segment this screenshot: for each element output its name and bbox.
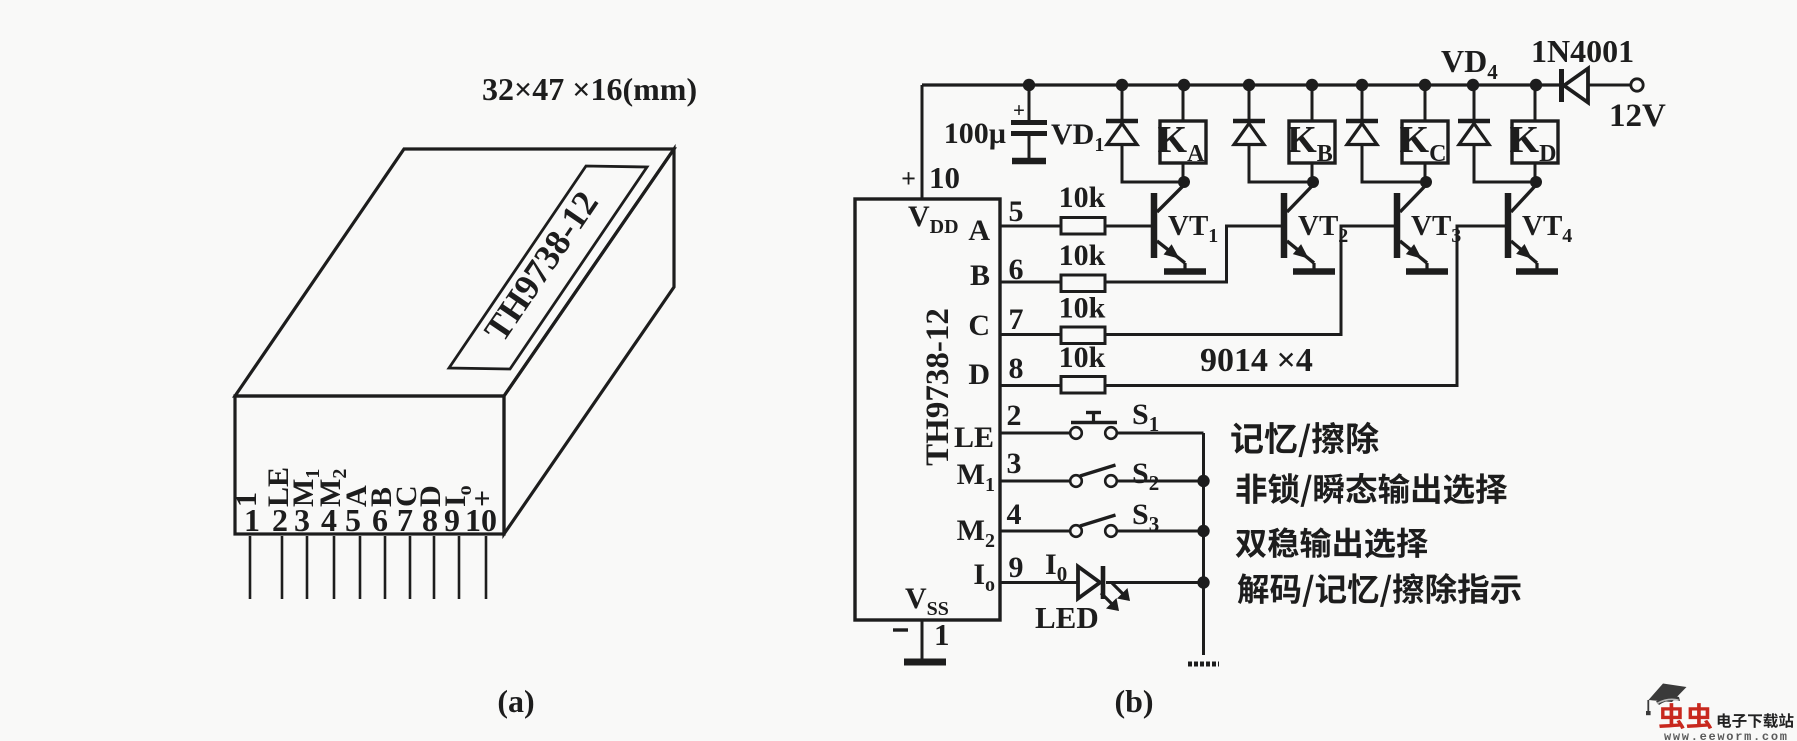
logo chongchong red — [1659, 703, 1712, 729]
supply rail wire — [922, 83, 1559, 86]
svg-text:9: 9 — [1009, 551, 1024, 584]
relay KD — [1534, 85, 1537, 121]
svg-text:1: 1 — [230, 492, 263, 507]
relay KC — [1424, 85, 1427, 121]
collector junction dots — [1178, 176, 1190, 188]
IC U1 TH9738-12 box — [855, 199, 1000, 620]
transistor VT3 — [1394, 193, 1401, 258]
svg-text:D: D — [968, 358, 990, 391]
svg-text:10k: 10k — [1059, 341, 1106, 374]
svg-text:10k: 10k — [1059, 181, 1106, 214]
svg-text:LED: LED — [1035, 600, 1099, 635]
logo graduation cap — [1649, 684, 1687, 703]
LED D1 — [1000, 581, 1078, 584]
svg-text:10k: 10k — [1059, 239, 1106, 272]
label - (pin1) — [893, 628, 908, 631]
label jiema... — [1238, 573, 1521, 607]
svg-text:6: 6 — [1009, 253, 1024, 286]
capacitor ground — [1012, 158, 1046, 165]
svg-text:1: 1 — [934, 617, 950, 652]
svg-text:LE: LE — [954, 421, 994, 454]
svg-text:www.eeworm.com: www.eeworm.com — [1664, 730, 1789, 741]
package top face — [235, 149, 674, 396]
label shuangwen... — [1236, 527, 1428, 558]
svg-text:(a): (a) — [497, 683, 534, 719]
relay KA — [1182, 85, 1185, 121]
package label plate — [449, 166, 647, 369]
relay KB — [1311, 85, 1314, 121]
resistors 10k x4 — [1061, 218, 1105, 235]
diode VD2 — [1248, 85, 1251, 119]
svg-text:10: 10 — [929, 160, 960, 195]
diode VD3 — [1361, 85, 1364, 119]
svg-text:32×47 ×16(mm): 32×47 ×16(mm) — [482, 71, 697, 107]
svg-text:A: A — [968, 214, 990, 247]
svg-text:5: 5 — [1009, 195, 1024, 228]
svg-text:TH9738-12: TH9738-12 — [920, 308, 956, 466]
package right face — [504, 149, 674, 534]
switch S3 — [1000, 530, 1070, 533]
bus ground — [1188, 662, 1219, 667]
logo site name — [1718, 713, 1794, 728]
diode VD1 — [1121, 85, 1124, 119]
IC pin10 wire — [921, 85, 924, 199]
svg-text:C: C — [968, 309, 990, 342]
diode VD4 — [1473, 85, 1476, 119]
rail-to-diode wire — [1587, 84, 1631, 87]
transistor VT4 — [1505, 193, 1512, 258]
svg-text:2: 2 — [1007, 399, 1022, 432]
ground (Vss) — [904, 659, 946, 666]
svg-text:4: 4 — [1007, 498, 1022, 531]
svg-text:+: + — [901, 164, 916, 193]
LED emission arrows — [1101, 593, 1114, 606]
svg-text:+: + — [1013, 98, 1025, 122]
svg-text:B: B — [970, 259, 990, 292]
label feisuo... — [1236, 473, 1507, 507]
package front face — [235, 396, 504, 534]
svg-text:10k: 10k — [1059, 292, 1106, 325]
svg-text:9014 ×4: 9014 ×4 — [1200, 342, 1313, 379]
switch S2 — [1000, 480, 1070, 483]
svg-text:8: 8 — [1009, 352, 1024, 385]
svg-text:3: 3 — [1007, 447, 1022, 480]
transistor VT1 — [1151, 193, 1158, 258]
svg-text:1N4001: 1N4001 — [1531, 33, 1634, 69]
svg-text:12V: 12V — [1609, 98, 1666, 134]
rail junction dots — [1023, 79, 1035, 91]
IC pin1 wire — [921, 620, 924, 661]
bus wire — [1202, 433, 1205, 655]
label jiyi/cachu — [1231, 422, 1378, 457]
switch S1 (pushbutton) — [1000, 432, 1070, 435]
bus junction dots — [1197, 475, 1209, 487]
svg-text:(b): (b) — [1114, 683, 1153, 719]
base drive wires A-D — [1000, 225, 1151, 228]
terminal 12V — [1631, 79, 1643, 91]
svg-text:+: + — [466, 490, 499, 507]
svg-text:100µ: 100µ — [944, 117, 1006, 150]
package pins — [249, 536, 252, 599]
diode 1N4001 — [1559, 69, 1564, 102]
capacitor C1 100u — [1028, 85, 1031, 120]
transistor VT2 — [1281, 193, 1288, 258]
svg-text:7: 7 — [1009, 303, 1024, 336]
